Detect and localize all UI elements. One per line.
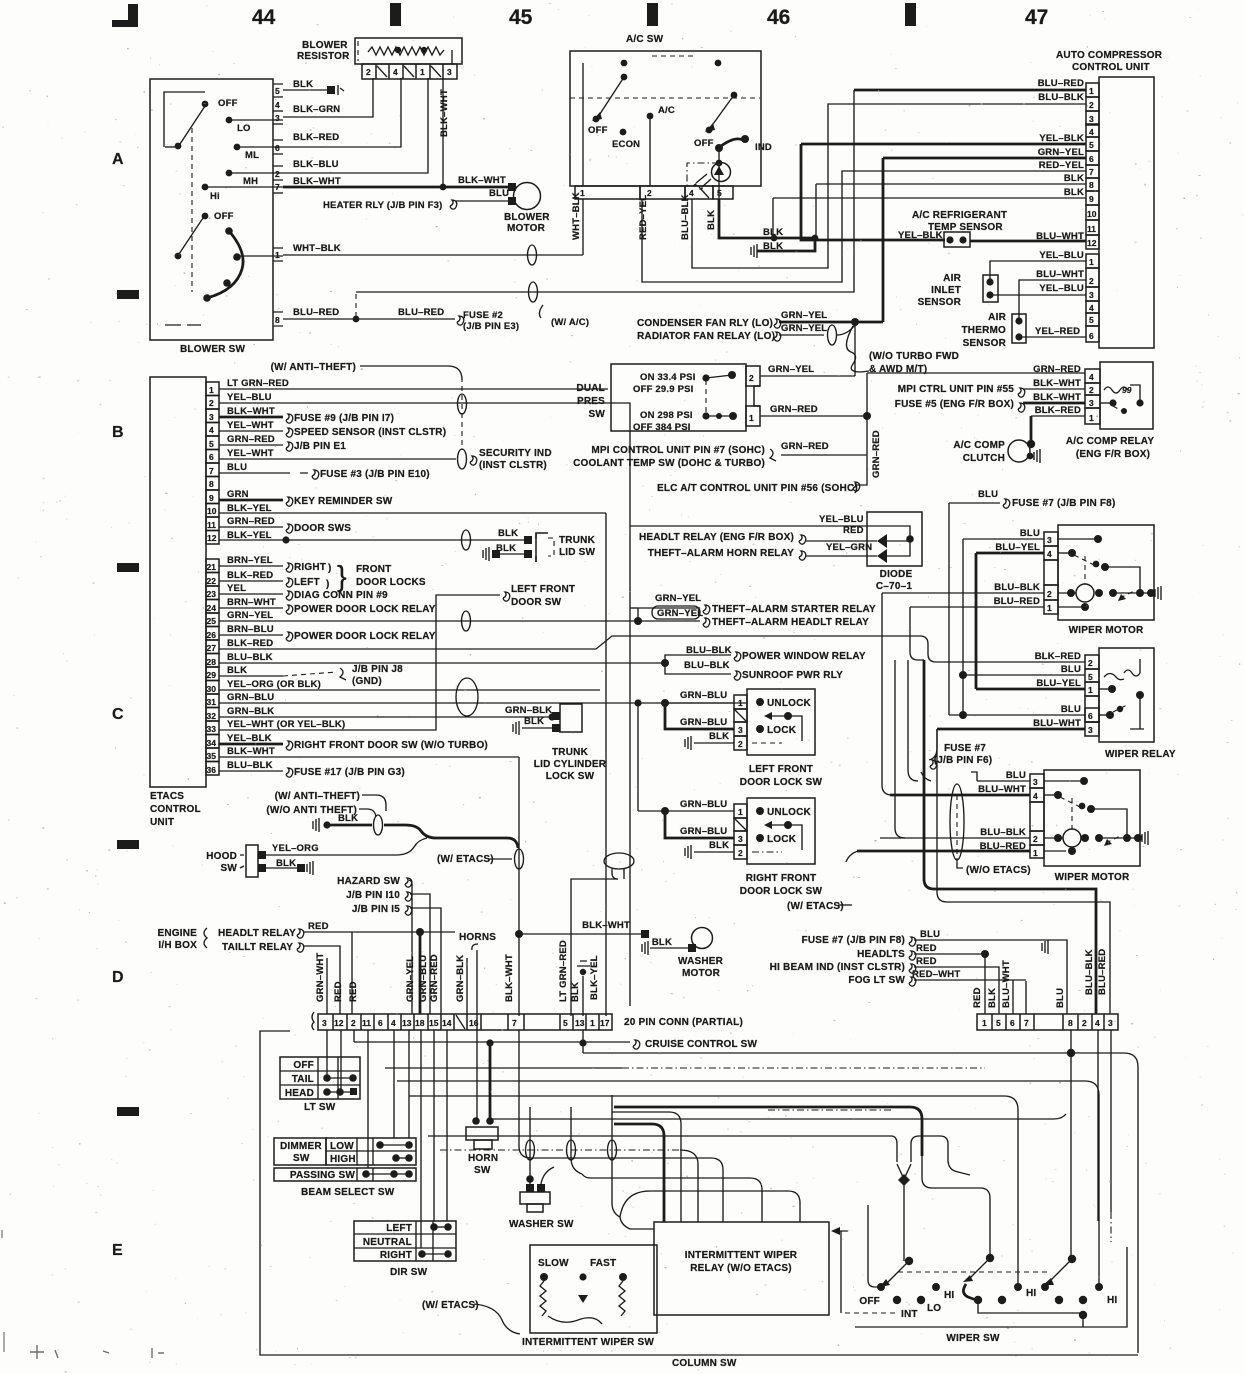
svg-text:COOLANT TEMP SW (DOHC & TURBO): COOLANT TEMP SW (DOHC & TURBO) xyxy=(573,458,765,469)
svg-text:LEFT: LEFT xyxy=(386,1223,412,1234)
svg-text:NEUTRAL: NEUTRAL xyxy=(363,1237,412,1248)
svg-text:47: 47 xyxy=(1025,6,1048,29)
svg-text:3: 3 xyxy=(1108,1018,1113,1028)
svg-text:J/B PIN I10: J/B PIN I10 xyxy=(346,890,400,901)
svg-text:WIPER RELAY: WIPER RELAY xyxy=(1105,749,1176,760)
svg-text:GRN–BLU: GRN–BLU xyxy=(227,692,274,703)
svg-text:POWER WINDOW RELAY: POWER WINDOW RELAY xyxy=(742,651,866,662)
svg-text:DIR SW: DIR SW xyxy=(390,1267,428,1278)
svg-text:POWER DOOR LOCK RELAY: POWER DOOR LOCK RELAY xyxy=(294,631,436,642)
svg-text:GRN–YEL: GRN–YEL xyxy=(227,610,273,621)
svg-text:HI: HI xyxy=(944,1290,954,1301)
svg-text:CONTROL UNIT: CONTROL UNIT xyxy=(1072,62,1150,73)
svg-text:HI BEAM IND (INST CLSTR): HI BEAM IND (INST CLSTR) xyxy=(770,962,905,973)
svg-text:MH: MH xyxy=(243,176,258,187)
svg-text:BLK–WHT: BLK–WHT xyxy=(582,920,630,931)
svg-text:GRN–YEL: GRN–YEL xyxy=(405,956,416,1002)
svg-text:3: 3 xyxy=(447,67,452,77)
svg-text:YEL–BLU: YEL–BLU xyxy=(1039,250,1084,261)
svg-text:3: 3 xyxy=(275,113,280,123)
svg-text:HAZARD SW: HAZARD SW xyxy=(337,876,400,887)
svg-text:UNLOCK: UNLOCK xyxy=(767,698,812,709)
svg-text:INLET: INLET xyxy=(931,285,961,296)
svg-text:12: 12 xyxy=(334,1018,344,1028)
svg-text:BRN–YEL: BRN–YEL xyxy=(227,555,273,566)
svg-text:B: B xyxy=(112,424,124,441)
svg-text:WIPER MOTOR: WIPER MOTOR xyxy=(1069,625,1144,636)
svg-text:2: 2 xyxy=(351,1018,356,1028)
svg-text:7: 7 xyxy=(275,182,280,192)
svg-text:BLK: BLK xyxy=(498,528,518,539)
svg-text:GRN–BLU: GRN–BLU xyxy=(680,826,727,837)
svg-text:5: 5 xyxy=(1088,672,1093,682)
svg-text:6: 6 xyxy=(1088,711,1093,721)
svg-text:RED: RED xyxy=(348,981,359,1002)
svg-text:OFF 29.9 PSI: OFF 29.9 PSI xyxy=(633,384,693,395)
svg-text:SW: SW xyxy=(588,409,605,420)
svg-text:A/C SW: A/C SW xyxy=(626,34,664,45)
svg-text:WASHER SW: WASHER SW xyxy=(509,1219,574,1230)
svg-text:ELC A/T CONTROL UNIT PIN #56 (: ELC A/T CONTROL UNIT PIN #56 (SOHC) xyxy=(657,483,858,494)
svg-text:2: 2 xyxy=(738,848,743,858)
svg-text:YEL–BLU: YEL–BLU xyxy=(819,514,864,525)
svg-text:OFF: OFF xyxy=(214,211,234,222)
svg-text:SENSOR: SENSOR xyxy=(963,338,1007,349)
svg-text:11: 11 xyxy=(1087,224,1096,234)
svg-text:BLK: BLK xyxy=(709,840,729,851)
svg-text:1: 1 xyxy=(1047,603,1052,613)
svg-text:GRN–RED: GRN–RED xyxy=(227,516,275,527)
svg-text:9: 9 xyxy=(1089,194,1094,204)
svg-text:2: 2 xyxy=(1082,1018,1087,1028)
svg-text:BLK: BLK xyxy=(338,813,358,824)
svg-text:YEL–ORG (OR BLK): YEL–ORG (OR BLK) xyxy=(227,679,321,690)
svg-text:HEATER RLY (J/B PIN F3): HEATER RLY (J/B PIN F3) xyxy=(323,200,443,211)
svg-text:FUSE #7 (J/B PIN F8): FUSE #7 (J/B PIN F8) xyxy=(802,935,905,946)
svg-text:1: 1 xyxy=(1089,413,1094,423)
svg-text:1: 1 xyxy=(749,413,754,423)
svg-text:2: 2 xyxy=(1089,385,1094,395)
svg-text:BLU–RED: BLU–RED xyxy=(293,307,339,318)
svg-text:MPI CTRL UNIT PIN #55: MPI CTRL UNIT PIN #55 xyxy=(898,384,1014,395)
svg-text:HORN: HORN xyxy=(468,1153,498,1164)
svg-text:44: 44 xyxy=(252,6,276,29)
svg-text:BLU–WHT: BLU–WHT xyxy=(1033,718,1081,729)
svg-text:DIODE: DIODE xyxy=(880,569,913,580)
svg-text:27: 27 xyxy=(207,643,217,653)
svg-text:RADIATOR FAN RELAY (LO): RADIATOR FAN RELAY (LO) xyxy=(637,331,775,342)
svg-text:11: 11 xyxy=(362,1018,371,1028)
svg-text:BLU: BLU xyxy=(1061,704,1081,715)
svg-text:3: 3 xyxy=(1089,290,1094,300)
svg-text:4: 4 xyxy=(393,67,398,77)
svg-text:15: 15 xyxy=(429,1018,439,1028)
svg-text:}: } xyxy=(337,561,347,593)
svg-text:BLK–RED: BLK–RED xyxy=(227,638,273,649)
svg-text:1: 1 xyxy=(738,698,743,708)
svg-text:35: 35 xyxy=(207,751,217,761)
svg-text:21: 21 xyxy=(207,562,217,572)
svg-text:DOOR LOCKS: DOOR LOCKS xyxy=(356,577,426,588)
svg-text:12: 12 xyxy=(1087,238,1097,248)
svg-text:36: 36 xyxy=(207,765,217,775)
svg-text:BLU: BLU xyxy=(978,489,998,500)
svg-text:WIPER MOTOR: WIPER MOTOR xyxy=(1055,872,1130,883)
svg-text:GRN–BLU: GRN–BLU xyxy=(680,799,727,810)
svg-text:GRN–YEL: GRN–YEL xyxy=(781,310,827,321)
svg-text:I/H BOX: I/H BOX xyxy=(158,940,197,951)
svg-text:BLU–RED: BLU–RED xyxy=(994,596,1040,607)
svg-text:28: 28 xyxy=(207,657,217,667)
svg-text:FUSE #7 (J/B PIN F8): FUSE #7 (J/B PIN F8) xyxy=(1012,498,1115,509)
svg-text:DIMMER: DIMMER xyxy=(280,1141,322,1152)
svg-text:BEAM SELECT SW: BEAM SELECT SW xyxy=(301,1187,395,1198)
svg-text:BLK–WHT: BLK–WHT xyxy=(1033,378,1081,389)
svg-text:LO: LO xyxy=(237,123,251,134)
svg-text:BLU–YEL: BLU–YEL xyxy=(1036,678,1081,689)
svg-text:3: 3 xyxy=(1089,114,1094,124)
svg-text:WIPER SW: WIPER SW xyxy=(946,1333,1000,1344)
svg-text:3: 3 xyxy=(1047,535,1052,545)
svg-text:ML: ML xyxy=(245,150,259,161)
svg-text:ON 298 PSI: ON 298 PSI xyxy=(640,410,693,421)
svg-text:FUSE #2: FUSE #2 xyxy=(463,310,503,321)
svg-text:PRES: PRES xyxy=(577,396,605,407)
svg-text:GRN–RED: GRN–RED xyxy=(781,441,829,452)
svg-text:5: 5 xyxy=(563,1018,568,1028)
svg-text:3: 3 xyxy=(322,1018,327,1028)
svg-text:BRN–WHT: BRN–WHT xyxy=(227,597,276,608)
svg-text:5: 5 xyxy=(1089,140,1094,150)
svg-text:3: 3 xyxy=(738,834,743,844)
svg-text:LEFT FRONT: LEFT FRONT xyxy=(749,764,813,775)
svg-text:(J/B PIN F6): (J/B PIN F6) xyxy=(934,755,993,766)
svg-text:BLU–RED: BLU–RED xyxy=(1038,78,1084,89)
svg-text:INT: INT xyxy=(901,1309,918,1320)
svg-text:LEFT: LEFT xyxy=(294,577,320,588)
svg-text:ETACS: ETACS xyxy=(150,791,184,802)
svg-text:UNLOCK: UNLOCK xyxy=(767,807,812,818)
svg-text:DOOR LOCK SW: DOOR LOCK SW xyxy=(740,886,823,897)
svg-text:RED: RED xyxy=(843,525,864,536)
svg-text:HEADLTS: HEADLTS xyxy=(857,949,905,960)
svg-text:BLOWER: BLOWER xyxy=(504,212,550,223)
svg-text:BLK: BLK xyxy=(709,731,729,742)
svg-text:2: 2 xyxy=(1033,834,1038,844)
svg-text:2: 2 xyxy=(275,169,280,179)
svg-text:OFF: OFF xyxy=(859,1296,880,1307)
svg-text:RED: RED xyxy=(308,921,329,932)
svg-text:PASSING SW: PASSING SW xyxy=(290,1170,356,1181)
svg-text:KEY REMINDER SW: KEY REMINDER SW xyxy=(294,496,393,507)
svg-text:IND: IND xyxy=(755,142,772,153)
svg-text:RED: RED xyxy=(333,981,344,1002)
svg-text:(W/ ETACS): (W/ ETACS) xyxy=(787,901,844,912)
svg-text:8: 8 xyxy=(275,315,280,325)
svg-text:11: 11 xyxy=(207,520,216,530)
svg-text:(GND): (GND) xyxy=(352,676,382,687)
svg-text:CLUTCH: CLUTCH xyxy=(963,453,1005,464)
svg-text:LOW: LOW xyxy=(330,1141,354,1152)
svg-text:9: 9 xyxy=(209,493,214,503)
svg-text:RED: RED xyxy=(972,987,983,1008)
svg-text:HORNS: HORNS xyxy=(459,932,496,943)
svg-text:6: 6 xyxy=(1089,154,1094,164)
svg-text:J/B PIN J8: J/B PIN J8 xyxy=(352,664,403,675)
svg-text:LID SW: LID SW xyxy=(559,547,596,558)
svg-text:HEAD: HEAD xyxy=(285,1088,314,1099)
svg-text:BLK–WHT: BLK–WHT xyxy=(458,175,506,186)
svg-text:GRN–RED: GRN–RED xyxy=(770,404,818,415)
svg-text:8: 8 xyxy=(1068,1018,1073,1028)
svg-text:YEL–WHT (OR YEL–BLK): YEL–WHT (OR YEL–BLK) xyxy=(227,719,345,730)
svg-text:5: 5 xyxy=(1089,315,1094,325)
svg-text:2: 2 xyxy=(749,373,754,383)
svg-text:GRN–RED: GRN–RED xyxy=(227,434,275,445)
svg-text:7: 7 xyxy=(209,466,214,476)
svg-text:FUSE #3 (J/B PIN E10): FUSE #3 (J/B PIN E10) xyxy=(320,469,430,480)
svg-text:CONDENSER FAN RLY (LO): CONDENSER FAN RLY (LO) xyxy=(637,318,773,329)
svg-text:E: E xyxy=(112,1242,123,1259)
svg-text:5: 5 xyxy=(275,86,280,96)
svg-text:GRN–YEL: GRN–YEL xyxy=(1038,147,1084,158)
svg-text:BLK–WHT: BLK–WHT xyxy=(227,746,275,757)
svg-text:BLU: BLU xyxy=(1055,988,1066,1008)
svg-text:BLK–BLU: BLK–BLU xyxy=(293,159,339,170)
svg-text:4: 4 xyxy=(1089,303,1094,313)
svg-text:ENGINE: ENGINE xyxy=(157,928,197,939)
svg-text:C: C xyxy=(112,706,124,723)
svg-text:4: 4 xyxy=(275,100,280,110)
svg-text:TRUNK: TRUNK xyxy=(559,535,596,546)
svg-text:SUNROOF PWR RLY: SUNROOF PWR RLY xyxy=(742,670,843,681)
svg-text:BLU–BLK: BLU–BLK xyxy=(684,660,730,671)
svg-text:BLK–YEL: BLK–YEL xyxy=(589,955,600,1000)
svg-text:WHT–BLK: WHT–BLK xyxy=(293,243,341,254)
svg-text:FUSE #9 (J/B PIN I7): FUSE #9 (J/B PIN I7) xyxy=(294,413,394,424)
svg-text:6: 6 xyxy=(1010,1018,1015,1028)
svg-text:GRN–BLK: GRN–BLK xyxy=(227,706,274,717)
svg-text:A/C: A/C xyxy=(658,105,675,116)
svg-text:AIR: AIR xyxy=(943,273,961,284)
svg-text:RIGHT: RIGHT xyxy=(294,562,326,573)
svg-text:1: 1 xyxy=(1089,86,1094,96)
svg-text:7: 7 xyxy=(512,1018,517,1028)
svg-text:GRN–YEL: GRN–YEL xyxy=(768,364,814,375)
svg-text:BLU–YEL: BLU–YEL xyxy=(995,542,1040,553)
svg-text:RED: RED xyxy=(916,943,937,954)
svg-text:A/C COMP: A/C COMP xyxy=(953,440,1005,451)
svg-text:25: 25 xyxy=(207,616,217,626)
svg-text:THEFT–ALARM HORN RELAY: THEFT–ALARM HORN RELAY xyxy=(648,548,794,559)
svg-text:RED–YEL: RED–YEL xyxy=(638,195,649,240)
svg-text:2: 2 xyxy=(1089,276,1094,286)
svg-text:YEL–WHT: YEL–WHT xyxy=(227,420,274,431)
svg-text:BLU: BLU xyxy=(1006,770,1026,781)
svg-text:GRN–YEL: GRN–YEL xyxy=(657,608,703,619)
svg-text:6: 6 xyxy=(1089,331,1094,341)
svg-text:SW: SW xyxy=(220,863,237,874)
svg-text:UNIT: UNIT xyxy=(150,817,174,828)
svg-text:BLU: BLU xyxy=(1020,528,1040,539)
svg-text:BLU–WHT: BLU–WHT xyxy=(1001,960,1012,1008)
svg-text:BLU–RED: BLU–RED xyxy=(398,307,444,318)
svg-text:WHT–BLK: WHT–BLK xyxy=(571,192,582,240)
svg-text:26: 26 xyxy=(207,630,217,640)
svg-text:7: 7 xyxy=(1024,1018,1029,1028)
svg-text:SW: SW xyxy=(474,1165,491,1176)
svg-text:1: 1 xyxy=(1088,685,1093,695)
svg-text:4: 4 xyxy=(1089,372,1094,382)
svg-text:INTERMITTENT WIPER SW: INTERMITTENT WIPER SW xyxy=(522,1337,654,1348)
svg-text:BLU–WHT: BLU–WHT xyxy=(1036,269,1084,280)
svg-text:CONTROL: CONTROL xyxy=(150,804,201,815)
svg-text:BLU–BLK: BLU–BLK xyxy=(1038,92,1084,103)
svg-text:RIGHT: RIGHT xyxy=(380,1250,412,1261)
svg-text:TAILLT RELAY: TAILLT RELAY xyxy=(222,942,293,953)
svg-text:BLK–WHT: BLK–WHT xyxy=(1033,392,1081,403)
svg-text:BLK: BLK xyxy=(1064,187,1084,198)
svg-text:YEL–BLU: YEL–BLU xyxy=(1039,283,1084,294)
svg-text:YEL–GRN: YEL–GRN xyxy=(826,542,872,553)
svg-text:THEFT–ALARM STARTER RELAY: THEFT–ALARM STARTER RELAY xyxy=(712,604,876,615)
svg-text:BLU–BLK: BLU–BLK xyxy=(1084,949,1095,995)
svg-text:BLU: BLU xyxy=(489,188,509,199)
svg-text:45: 45 xyxy=(509,6,533,29)
svg-text:BLU–BLK: BLU–BLK xyxy=(980,827,1026,838)
svg-text:(W/ ANTI–THEFT): (W/ ANTI–THEFT) xyxy=(271,362,356,373)
svg-text:3: 3 xyxy=(209,412,214,422)
svg-text:RIGHT FRONT: RIGHT FRONT xyxy=(746,873,817,884)
svg-text:4: 4 xyxy=(1095,1018,1100,1028)
svg-text:): ) xyxy=(328,563,332,574)
svg-text:7: 7 xyxy=(1089,167,1094,177)
svg-text:FAST: FAST xyxy=(590,1258,616,1269)
svg-text:D: D xyxy=(112,969,124,986)
svg-text:1: 1 xyxy=(590,1018,595,1028)
svg-text:99: 99 xyxy=(1122,385,1132,395)
svg-text:BLU: BLU xyxy=(920,929,940,940)
svg-text:3: 3 xyxy=(738,725,743,735)
svg-text:GRN–RED: GRN–RED xyxy=(429,954,440,1002)
svg-text:(ENG F/R BOX): (ENG F/R BOX) xyxy=(1076,449,1150,460)
svg-text:BLU–BLK: BLU–BLK xyxy=(994,582,1040,593)
svg-text:(W/ ANTI–THEFT): (W/ ANTI–THEFT) xyxy=(275,791,360,802)
svg-text:POWER DOOR LOCK RELAY: POWER DOOR LOCK RELAY xyxy=(294,604,436,615)
svg-text:MPI CONTROL UNIT PIN #7 (SOHC): MPI CONTROL UNIT PIN #7 (SOHC) xyxy=(591,445,765,456)
svg-text:6: 6 xyxy=(378,1018,383,1028)
svg-text:FUSE #17 (J/B PIN G3): FUSE #17 (J/B PIN G3) xyxy=(294,767,405,778)
svg-text:SW: SW xyxy=(293,1153,310,1164)
svg-text:TRUNK: TRUNK xyxy=(552,747,589,758)
svg-text:2: 2 xyxy=(1047,589,1052,599)
svg-text:BLK–RED: BLK–RED xyxy=(293,132,339,143)
svg-text:14: 14 xyxy=(442,1018,452,1028)
svg-text:OFF: OFF xyxy=(694,138,714,149)
svg-text:6: 6 xyxy=(275,143,280,153)
svg-text:BLK–RED: BLK–RED xyxy=(1035,405,1081,416)
svg-text:YEL–BLK: YEL–BLK xyxy=(227,733,272,744)
svg-text:OFF 384 PSI: OFF 384 PSI xyxy=(633,422,691,433)
svg-text:LEFT FRONT: LEFT FRONT xyxy=(511,584,575,595)
svg-text:4: 4 xyxy=(1033,791,1038,801)
svg-text:6: 6 xyxy=(209,452,214,462)
svg-text:GRN–BLU: GRN–BLU xyxy=(680,717,727,728)
svg-text:BLOWER: BLOWER xyxy=(302,40,348,51)
svg-text:A: A xyxy=(112,151,124,168)
svg-text:32: 32 xyxy=(207,711,217,721)
svg-text:4: 4 xyxy=(1047,549,1052,559)
svg-text:LT GRN–RED: LT GRN–RED xyxy=(558,940,569,1002)
svg-text:SLOW: SLOW xyxy=(538,1258,569,1269)
svg-text:23: 23 xyxy=(207,589,217,599)
svg-text:16: 16 xyxy=(469,1018,479,1028)
svg-text:): ) xyxy=(326,579,330,590)
svg-text:8: 8 xyxy=(209,479,214,489)
svg-text:GRN–BLK: GRN–BLK xyxy=(455,955,466,1002)
svg-text:J/B PIN E1: J/B PIN E1 xyxy=(294,441,346,452)
svg-text:YEL–WHT: YEL–WHT xyxy=(227,448,274,459)
svg-text:1: 1 xyxy=(420,67,425,77)
svg-text:18: 18 xyxy=(415,1018,425,1028)
svg-text:LO: LO xyxy=(927,1303,941,1314)
svg-text:BLU–BLK: BLU–BLK xyxy=(227,760,273,771)
svg-text:2: 2 xyxy=(366,67,371,77)
svg-text:OFF: OFF xyxy=(588,125,608,136)
svg-text:BLK: BLK xyxy=(706,210,717,230)
svg-text:RED: RED xyxy=(916,956,937,967)
svg-text:BLU–WHT: BLU–WHT xyxy=(978,784,1026,795)
svg-text:3: 3 xyxy=(1088,725,1093,735)
svg-text:GRN–BLU: GRN–BLU xyxy=(680,690,727,701)
svg-text:LOCK: LOCK xyxy=(767,834,797,845)
svg-text:GRN–RED: GRN–RED xyxy=(871,430,882,478)
svg-text:Hi: Hi xyxy=(210,191,220,202)
svg-text:RIGHT FRONT DOOR SW (W/O TURBO: RIGHT FRONT DOOR SW (W/O TURBO) xyxy=(294,740,488,751)
svg-text:DOOR LOCK SW: DOOR LOCK SW xyxy=(740,777,823,788)
svg-text:2: 2 xyxy=(738,739,743,749)
svg-text:BLK–WHT: BLK–WHT xyxy=(227,406,275,417)
svg-text:WASHER: WASHER xyxy=(678,956,724,967)
svg-text:BLK: BLK xyxy=(652,937,672,948)
svg-text:BLK–GRN: BLK–GRN xyxy=(293,104,340,115)
svg-text:5: 5 xyxy=(209,439,214,449)
svg-text:LID CYLINDER: LID CYLINDER xyxy=(534,759,607,770)
svg-text:20 PIN CONN (PARTIAL): 20 PIN CONN (PARTIAL) xyxy=(624,1017,743,1028)
svg-text:YEL–BLK: YEL–BLK xyxy=(1039,133,1084,144)
svg-text:(W/O ETACS): (W/O ETACS) xyxy=(966,865,1031,876)
svg-text:SPEED SENSOR (INST CLSTR): SPEED SENSOR (INST CLSTR) xyxy=(294,427,446,438)
svg-text:BLU–BLK: BLU–BLK xyxy=(227,652,273,663)
svg-text:C–70–1: C–70–1 xyxy=(876,581,912,592)
svg-text:2: 2 xyxy=(1089,100,1094,110)
svg-text:22: 22 xyxy=(207,576,217,586)
svg-text:BLK: BLK xyxy=(987,988,998,1008)
svg-text:BLK: BLK xyxy=(1064,173,1084,184)
svg-text:BLK: BLK xyxy=(524,716,544,727)
svg-text:31: 31 xyxy=(207,697,217,707)
svg-text:OFF: OFF xyxy=(293,1060,314,1071)
svg-text:LT GRN–RED: LT GRN–RED xyxy=(227,378,289,389)
svg-text:GRN–BLK: GRN–BLK xyxy=(505,705,552,716)
svg-text:10: 10 xyxy=(207,506,217,516)
svg-text:LOCK SW: LOCK SW xyxy=(546,771,595,782)
svg-text:1: 1 xyxy=(209,385,214,395)
svg-text:ECON: ECON xyxy=(612,139,640,150)
svg-text:1: 1 xyxy=(275,250,280,260)
svg-text:33: 33 xyxy=(207,724,217,734)
svg-text:GRN: GRN xyxy=(227,489,249,500)
